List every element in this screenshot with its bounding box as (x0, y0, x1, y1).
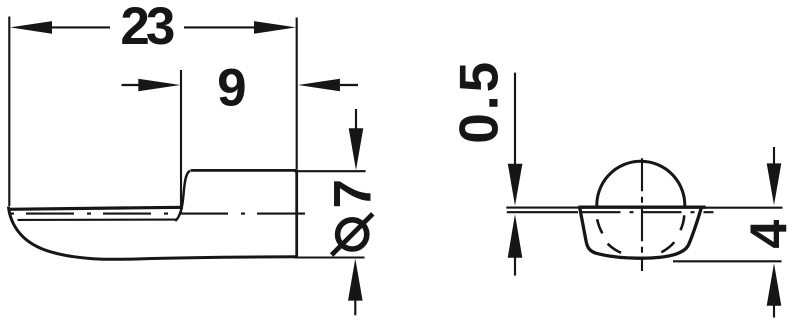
dimension 23 line left segment (50, 26, 110, 28)
dimension 23 extension line left (8, 17, 10, 207)
svg-text:0.5: 0.5 (448, 62, 510, 144)
side view centerline (pin axis) (10, 213, 308, 215)
label diameter symbol slash (332, 214, 373, 255)
front view pin circle lower arc segment right (681, 215, 685, 230)
dimension 07 bottom extension line (294, 256, 365, 258)
dimension 4 down arrowhead (767, 163, 782, 205)
front view cup rim line (578, 206, 705, 209)
dimension 4 top arrow tail (773, 147, 775, 165)
dimension 07 top extension line (294, 170, 366, 172)
shelf support side view: scoop top rim edge (8, 207, 183, 209)
dimension 07 top arrowhead (349, 128, 364, 170)
dimension 23 line right segment (184, 26, 256, 28)
front view pin circle lower arc segment lower-right (661, 242, 674, 252)
dimension 0.5 arrow tail lower (514, 256, 516, 276)
dimension 4 bottom arrow tail (773, 304, 775, 318)
dimension 07 top arrow tail (355, 109, 357, 129)
front view: tab edge top line (506, 207, 580, 209)
dimension 23 extension line right (296, 18, 298, 170)
front view horizontal centerline (582, 211, 714, 213)
dimension 23 left arrowhead (10, 21, 52, 34)
dimension 4 bottom extension line (673, 260, 782, 262)
svg-text:23: 23 (120, 0, 175, 56)
dimension 07 bottom arrowhead (348, 259, 363, 301)
front view pin circle lower arc segment left (597, 219, 602, 233)
label diameter symbol ring (338, 220, 367, 249)
pin top edge (191, 169, 297, 172)
svg-text:7: 7 (323, 179, 382, 208)
dimension 4 top extension line (702, 207, 783, 209)
scoop and pin bottom outline (8, 207, 296, 260)
pin root fillet (175, 171, 190, 221)
dimension 23 right arrowhead (254, 21, 296, 34)
front view: tab edge bottom line (507, 211, 578, 213)
dimension 9 right arrowhead (298, 79, 340, 92)
dimension 0.5 up arrowhead (508, 214, 523, 257)
front view pin circle lower arc segment lower-left (608, 244, 621, 253)
front view pin circle upper arc (597, 161, 685, 208)
scoop inner rim line (18, 219, 178, 221)
dimension 07 bottom arrow tail (354, 299, 356, 315)
pin end face (295, 169, 298, 258)
dimension 4 up arrowhead (767, 263, 782, 305)
dimension 9 left arrow tail (122, 84, 141, 86)
dimension 9 right arrow tail (338, 84, 358, 86)
dimension 0.5 arrow tail upper (514, 73, 516, 165)
svg-text:9: 9 (217, 59, 246, 118)
front view vertical centerline (641, 158, 643, 271)
dimension 9 left arrowhead (138, 79, 180, 92)
dimension 0.5 down arrowhead (508, 164, 523, 206)
svg-text:4: 4 (741, 220, 799, 249)
front view cup outline (580, 207, 702, 259)
dimension 9 extension / step edge line (180, 70, 182, 214)
